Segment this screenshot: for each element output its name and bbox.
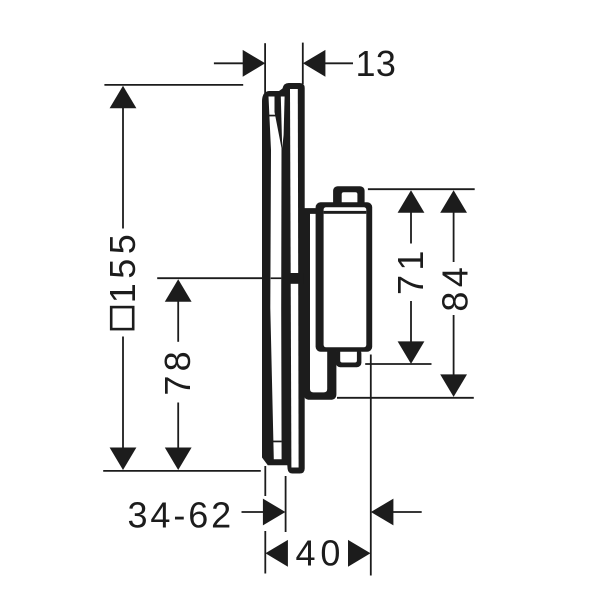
dim line 13 left tail xyxy=(214,62,245,64)
extension line 13 right vertical xyxy=(302,43,304,84)
extension line 155 top xyxy=(104,84,243,86)
extension line 71 bottom xyxy=(365,363,431,365)
dim line 71 lower segment xyxy=(410,301,412,344)
extension line bottom right vertical xyxy=(370,355,372,576)
arrow 34-62 pointing left xyxy=(371,499,394,526)
arrow 71 pointing down xyxy=(398,341,425,364)
extension line 155/78 bottom xyxy=(103,470,261,472)
dim line 84 lower segment xyxy=(453,315,455,377)
extension line bottom left vertical lower segment xyxy=(264,531,266,574)
svg-text:40: 40 xyxy=(296,533,346,574)
plate divider line top xyxy=(269,115,277,117)
dim line 34-62 right tail xyxy=(391,511,422,513)
dim line 78 lower segment xyxy=(177,403,179,451)
plate mid bridge block xyxy=(282,273,304,284)
extension line 84 bottom xyxy=(337,397,474,399)
arrow 71 pointing up xyxy=(398,190,425,213)
arrow 34-62 pointing right xyxy=(263,499,286,526)
dim line 155 upper segment xyxy=(122,106,124,229)
dim line 71 upper segment xyxy=(410,209,412,243)
arrow 155 pointing up xyxy=(110,86,137,109)
plate divider line bottom xyxy=(273,441,282,443)
dim line 78 upper segment xyxy=(177,298,179,342)
svg-text:34-62: 34-62 xyxy=(128,494,235,535)
extension line 78 top xyxy=(157,277,263,279)
svg-text:84: 84 xyxy=(434,263,475,312)
arrow 40 pointing left xyxy=(265,540,288,567)
svg-text:78: 78 xyxy=(157,347,198,396)
extension line 71/84 top xyxy=(368,188,475,190)
handle bottom cap xyxy=(336,349,362,367)
arrow 84 pointing down xyxy=(440,374,467,397)
extension line bottom left vertical upper segment xyxy=(264,466,266,496)
plate face highlight B xyxy=(290,89,299,468)
arrow 84 pointing up xyxy=(440,190,467,213)
svg-text:155: 155 xyxy=(102,230,143,304)
arrow 155 pointing down xyxy=(110,448,137,471)
handle body xyxy=(316,202,373,351)
dim line 84 upper segment xyxy=(453,209,455,262)
handle knob xyxy=(333,186,365,208)
arrow 13 pointing right xyxy=(243,50,266,77)
valve sleeve behind handle xyxy=(304,208,337,400)
svg-text:13: 13 xyxy=(356,43,397,84)
dim line 155 lower segment xyxy=(122,337,124,451)
plate face highlight A xyxy=(269,97,282,460)
sleeve slot xyxy=(310,214,327,393)
arrow 13 pointing left xyxy=(303,50,326,77)
arrow 40 pointing right xyxy=(348,540,371,567)
extension line 13 left vertical xyxy=(264,43,266,99)
escutcheon plate (side silhouette, slabs A+B) xyxy=(262,83,305,474)
label square symbol of 155 xyxy=(111,307,133,329)
svg-text:71: 71 xyxy=(390,246,431,295)
arrow 78 pointing down xyxy=(165,448,192,471)
arrow 78 pointing up xyxy=(165,279,192,302)
extension line bottom mid vertical xyxy=(285,476,287,532)
dim line 34-62 left tail xyxy=(242,511,266,513)
plate divider line mid xyxy=(271,277,282,279)
plate gap channel upper xyxy=(281,97,285,149)
handle body inner top line xyxy=(324,211,367,214)
dim line 13 right tail xyxy=(324,62,354,64)
